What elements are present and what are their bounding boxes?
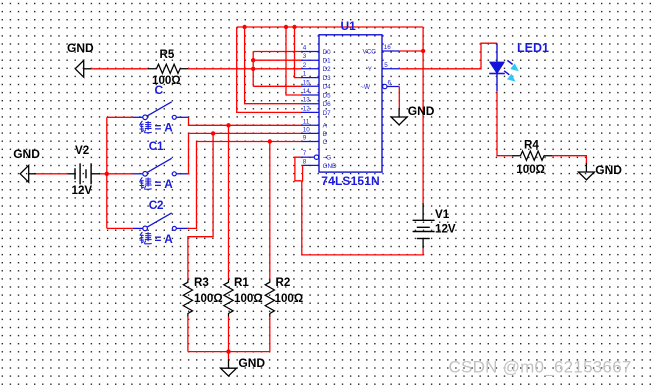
junction [242, 25, 246, 29]
svg-text:GND: GND [323, 163, 337, 170]
svg-text:4: 4 [303, 45, 307, 52]
svg-text:LED1: LED1 [517, 41, 549, 55]
svg-text:R4: R4 [524, 138, 539, 151]
wire R3 bottom [187, 317, 189, 352]
svg-text:7: 7 [303, 150, 307, 157]
wire net A: switch C to pin 11 and R1 [189, 117, 302, 125]
wire to D5 [286, 27, 301, 95]
pin 4 D0 [301, 45, 331, 56]
wire pin6 to ground [398, 87, 400, 109]
resistor R1 100Ω [224, 276, 263, 317]
junction [268, 139, 272, 143]
resistor R5 100Ω [148, 48, 188, 87]
resistor R2 100Ω [265, 276, 303, 317]
wire R5 to D0/D1/D2/D4 bus [188, 68, 253, 70]
wire battery to switch bus [100, 173, 133, 175]
svg-text:100Ω: 100Ω [194, 292, 223, 305]
svg-text:C1: C1 [149, 140, 164, 153]
wire down to R1 [228, 125, 230, 279]
svg-text:13: 13 [303, 97, 311, 104]
svg-text:D4: D4 [323, 84, 332, 91]
svg-text:R5: R5 [160, 48, 175, 61]
pin 13 D6 [301, 97, 331, 108]
svg-text:C: C [323, 139, 328, 146]
op chip outline U1 74LS151N [319, 35, 382, 172]
svg-text:100Ω: 100Ω [275, 292, 304, 305]
svg-text:GND: GND [13, 147, 40, 161]
ground GND (pin 6) [391, 104, 435, 125]
wire Y pin5 to LED1 [399, 43, 497, 69]
svg-text:9: 9 [303, 135, 307, 142]
svg-text:D7: D7 [323, 110, 332, 117]
svg-text:R1: R1 [234, 276, 249, 289]
svg-text:V1: V1 [435, 208, 450, 221]
svg-text:11: 11 [303, 118, 310, 125]
junction [284, 25, 288, 29]
junction [105, 172, 109, 176]
wire top VCC rail [237, 26, 423, 28]
svg-text:D1: D1 [323, 58, 332, 65]
wire bottom rail [188, 351, 270, 353]
svg-text:15: 15 [303, 79, 311, 86]
svg-text:CSDN @m0_62153667: CSDN @m0_62153667 [449, 357, 632, 376]
svg-text:100Ω: 100Ω [234, 292, 263, 305]
switch C1 (SPST, key A) [133, 140, 189, 191]
switch C (SPST, key A) [133, 102, 189, 135]
resistor R3 100Ω [183, 276, 222, 317]
pin 12 D7 [301, 105, 331, 116]
svg-text:~G: ~G [323, 155, 332, 162]
wire switch feed bus [106, 117, 108, 228]
svg-text:R3: R3 [194, 276, 209, 289]
svg-text:C: C [155, 83, 164, 97]
junction [421, 49, 425, 53]
svg-text:100Ω: 100Ω [516, 163, 545, 176]
svg-text:GND: GND [595, 163, 622, 177]
svg-text:16: 16 [384, 44, 392, 51]
wire net C: switch C2 to pin 9 and R2 [187, 142, 301, 229]
junction [251, 58, 255, 62]
pin 1 D3 [301, 71, 331, 82]
svg-text:D2: D2 [323, 66, 332, 73]
LED LED1 (blue) [489, 43, 519, 91]
svg-text:74LS151N: 74LS151N [321, 174, 380, 188]
wire [91, 68, 148, 70]
svg-text:12V: 12V [72, 184, 93, 197]
svg-text:GND: GND [408, 104, 435, 118]
pin 16 VCC [363, 44, 400, 55]
svg-text:R2: R2 [276, 276, 291, 289]
svg-text:8: 8 [303, 158, 307, 165]
wire to V1 - [302, 181, 423, 255]
ground GND (bottom) [221, 356, 266, 376]
svg-text:12: 12 [303, 105, 311, 112]
svg-text:= A: = A [155, 232, 174, 246]
wire R2 bottom [269, 317, 271, 352]
wire to D7 [237, 27, 301, 112]
pin 10 B [301, 126, 327, 137]
svg-text:5: 5 [384, 62, 388, 69]
wire LED to R4 [497, 91, 512, 156]
svg-text:GND: GND [238, 356, 265, 370]
pin 9 C [301, 135, 328, 146]
pin 5 Y [368, 62, 400, 73]
svg-text:V2: V2 [75, 144, 89, 157]
svg-text:~W: ~W [360, 84, 370, 91]
svg-text:1: 1 [303, 71, 307, 78]
svg-text:6: 6 [388, 80, 392, 87]
svg-text:= A: = A [155, 177, 174, 191]
svg-text:D0: D0 [323, 49, 332, 56]
pin 2 D2 [301, 62, 331, 73]
pin 14 D5 [301, 88, 331, 99]
pin 3 D1 [301, 53, 331, 64]
svg-text:U1: U1 [341, 19, 357, 33]
wire VCC pin16 [399, 50, 423, 52]
junction [211, 131, 215, 135]
ground GND (right of R4) [578, 163, 622, 180]
wire [36, 173, 68, 175]
pin 7 ~G (active low enable, bubble) [301, 150, 332, 161]
wire R4 to ground [552, 156, 586, 164]
wire to D6 [245, 27, 301, 104]
switch C2 (SPST, key A) [133, 199, 189, 246]
junction [226, 123, 230, 127]
wire net B: switch C1 to pin 10 and R3 [187, 133, 301, 173]
wire R1 bottom [228, 317, 230, 352]
svg-text:VCC: VCC [363, 48, 377, 55]
svg-text:3: 3 [303, 53, 307, 60]
pin 11 A [301, 118, 328, 129]
battery V1 12V [413, 203, 456, 249]
svg-text:D6: D6 [323, 101, 332, 108]
wire pin8 GND [302, 165, 304, 181]
battery V2 12V [68, 144, 100, 197]
svg-text:C2: C2 [149, 199, 164, 212]
pin 6 ~W (bubble) [360, 80, 399, 91]
pin 8 GND [303, 158, 337, 169]
resistor R4 100Ω [512, 138, 553, 176]
pin 15 D4 [301, 79, 331, 90]
ground GND (left, V2) [13, 147, 40, 182]
junction [226, 349, 230, 353]
svg-text:D5: D5 [323, 92, 332, 99]
ground GND (top left) [67, 41, 94, 77]
wire to bottom ground [228, 352, 230, 360]
svg-text:B: B [323, 131, 327, 138]
svg-text:14: 14 [303, 88, 311, 95]
svg-text:2: 2 [303, 62, 307, 69]
svg-text:D3: D3 [323, 75, 332, 82]
svg-text:GND: GND [67, 41, 94, 55]
svg-text:= A: = A [155, 121, 174, 135]
svg-text:12V: 12V [435, 223, 456, 236]
wire to D3 [295, 27, 302, 78]
wire pin7 ~G [295, 157, 302, 181]
wire down to R3 [188, 133, 213, 279]
svg-text:10: 10 [303, 126, 311, 133]
junction [292, 25, 296, 29]
wire to V1 + [422, 27, 424, 203]
wire down to R2 [269, 142, 271, 280]
junction [251, 67, 255, 71]
